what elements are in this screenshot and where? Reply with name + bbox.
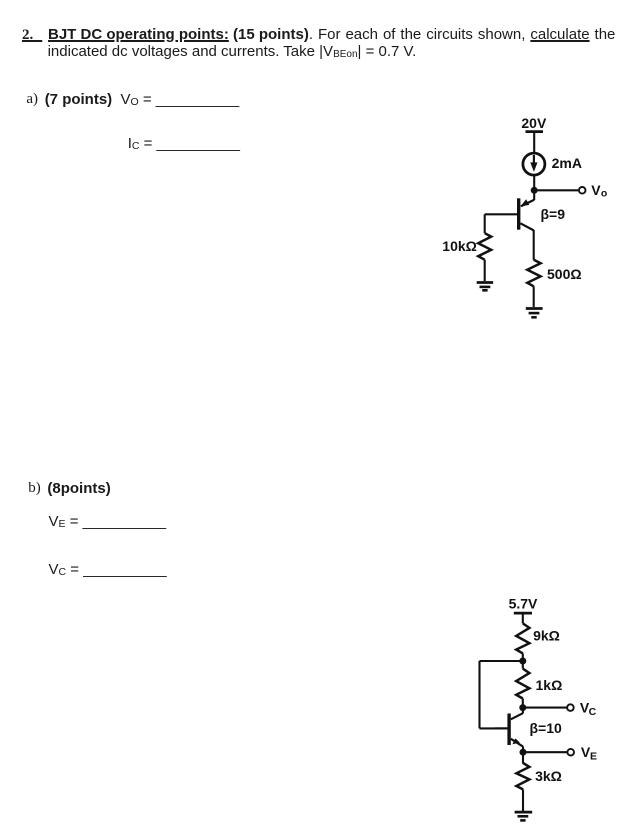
svg-text:10kΩ: 10kΩ: [442, 238, 477, 254]
svg-text:E: E: [590, 751, 597, 763]
svg-text:500Ω: 500Ω: [547, 266, 582, 282]
svg-text:3kΩ: 3kΩ: [535, 768, 562, 784]
svg-text:o: o: [601, 188, 607, 200]
svg-text:5.7V: 5.7V: [509, 596, 538, 612]
svg-text:β=10: β=10: [530, 720, 563, 736]
svg-text:1kΩ: 1kΩ: [536, 677, 563, 693]
svg-text:C: C: [589, 706, 597, 718]
svg-text:9kΩ: 9kΩ: [533, 628, 560, 644]
svg-text:V: V: [591, 182, 601, 198]
svg-text:β=9: β=9: [541, 206, 566, 222]
svg-text:20V: 20V: [521, 115, 547, 131]
svg-text:2mA: 2mA: [552, 155, 582, 171]
